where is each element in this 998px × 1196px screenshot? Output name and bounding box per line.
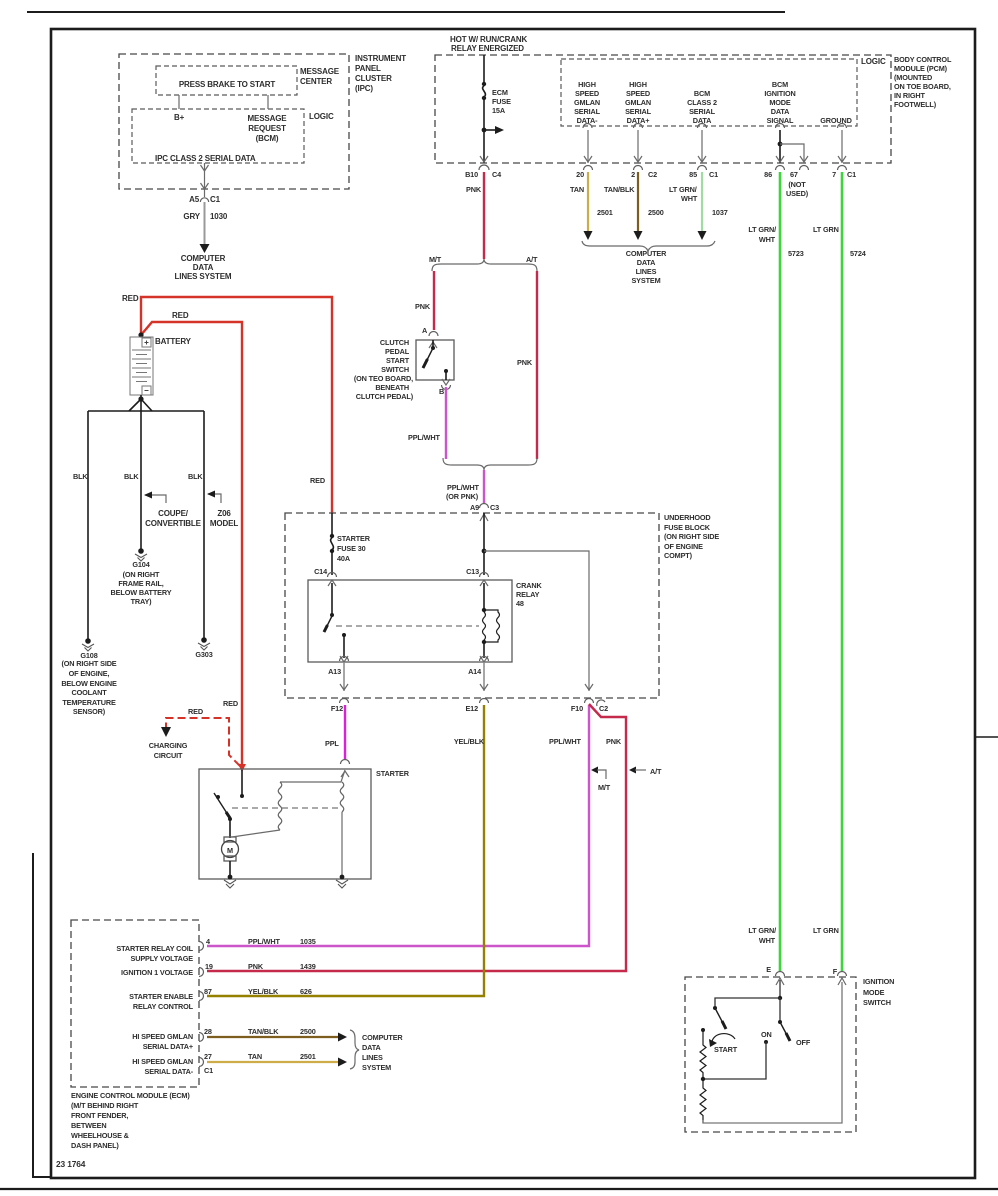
svg-text:23 1764: 23 1764 — [56, 1159, 86, 1169]
pin 7 ground stub — [838, 124, 847, 164]
wire TAN 2501 ECM — [207, 1061, 338, 1063]
svg-text:YEL/BLK: YEL/BLK — [454, 737, 485, 746]
svg-text:RED: RED — [172, 311, 189, 320]
svg-text:LT GRN: LT GRN — [813, 926, 839, 935]
svg-text:DATA: DATA — [637, 258, 656, 267]
battery — [130, 337, 153, 395]
svg-text:7: 7 — [832, 170, 836, 179]
svg-text:PNK: PNK — [517, 358, 533, 367]
node fuse tap — [482, 128, 487, 133]
ignition switch internals — [713, 980, 790, 1041]
connector A5 C1 — [200, 198, 208, 202]
svg-text:GMLAN: GMLAN — [574, 98, 600, 107]
svg-text:A5: A5 — [189, 195, 200, 204]
connector 67 not used — [800, 166, 809, 171]
svg-text:SERIAL: SERIAL — [689, 107, 716, 116]
wire TAN 2501 — [587, 172, 589, 231]
svg-text:A/T: A/T — [526, 255, 538, 264]
wire BLK to G303 — [203, 411, 205, 638]
svg-text:OF ENGINE: OF ENGINE — [664, 542, 703, 551]
ECM fuse 15A — [483, 55, 485, 83]
svg-text:19: 19 — [205, 962, 213, 971]
svg-text:MODE: MODE — [863, 988, 885, 997]
svg-text:SERIAL: SERIAL — [574, 107, 601, 116]
connector A9 C3 — [480, 504, 489, 508]
svg-text:SWITCH: SWITCH — [381, 365, 409, 374]
splice bracket to A9 — [443, 458, 537, 470]
svg-text:REQUEST: REQUEST — [248, 124, 286, 133]
svg-text:START: START — [714, 1045, 738, 1054]
ground G303 — [198, 637, 210, 650]
wire stub B+ — [178, 95, 180, 109]
svg-text:IN RIGHT: IN RIGHT — [894, 91, 926, 100]
svg-text:DATA: DATA — [771, 107, 790, 116]
svg-text:LT GRN/: LT GRN/ — [748, 926, 776, 935]
connector starter solenoid — [341, 760, 350, 764]
svg-text:RED: RED — [310, 476, 325, 485]
wire RED dashed charging circuit — [166, 718, 240, 766]
svg-text:M/T: M/T — [429, 255, 442, 264]
starter box — [199, 769, 371, 879]
svg-text:BELOW ENGINE: BELOW ENGINE — [61, 679, 117, 688]
svg-text:PNK: PNK — [415, 302, 431, 311]
connector F10 C2 — [585, 699, 594, 704]
ECM pin 19 — [199, 968, 204, 977]
svg-text:SYSTEM: SYSTEM — [362, 1063, 391, 1072]
svg-text:15A: 15A — [492, 106, 506, 115]
svg-text:PANEL: PANEL — [355, 64, 381, 73]
svg-text:(IPC): (IPC) — [355, 84, 373, 93]
wire A14 to E12 — [483, 663, 485, 691]
connector 85 C1 — [698, 166, 707, 171]
svg-text:FUSE BLOCK: FUSE BLOCK — [664, 523, 711, 532]
wire TAN/BLK 2500 — [637, 172, 639, 231]
svg-text:MESSAGE: MESSAGE — [248, 114, 288, 123]
lower green labels — [748, 926, 776, 945]
svg-text:COUPE/: COUPE/ — [158, 509, 189, 518]
svg-text:(ON RIGHT: (ON RIGHT — [123, 570, 160, 579]
svg-text:OFF: OFF — [796, 1038, 811, 1047]
svg-text:STARTER: STARTER — [337, 534, 371, 543]
starter switch — [214, 770, 244, 838]
relay coil — [480, 580, 500, 662]
wire battery negative — [140, 395, 142, 399]
brace computer data lines — [582, 241, 715, 251]
connector A clutch switch — [429, 332, 438, 337]
svg-text:F10: F10 — [571, 704, 583, 713]
svg-text:M: M — [227, 846, 233, 855]
svg-text:C2: C2 — [599, 704, 608, 713]
svg-text:5723: 5723 — [788, 249, 804, 258]
svg-text:E: E — [766, 965, 771, 974]
svg-text:SYSTEM: SYSTEM — [631, 276, 660, 285]
BCM module dashed box — [435, 55, 891, 163]
svg-text:SERIAL DATA-: SERIAL DATA- — [145, 1067, 194, 1076]
wire LT GRN/WHT 1037 — [701, 172, 703, 231]
svg-text:GRY: GRY — [183, 212, 200, 221]
svg-text:PPL/WHT: PPL/WHT — [408, 433, 440, 442]
svg-text:COMPUTER: COMPUTER — [626, 249, 667, 258]
arrow red into starter — [238, 764, 246, 772]
starter motor M — [222, 837, 239, 877]
page bottom rule — [0, 1188, 998, 1190]
svg-text:PNK: PNK — [248, 962, 264, 971]
svg-text:F12: F12 — [331, 704, 343, 713]
svg-text:RELAY ENERGIZED: RELAY ENERGIZED — [451, 44, 524, 53]
svg-text:PEDAL: PEDAL — [385, 347, 410, 356]
svg-text:CLUTCH: CLUTCH — [380, 338, 409, 347]
svg-text:SUPPLY VOLTAGE: SUPPLY VOLTAGE — [130, 954, 193, 963]
svg-text:HIGH: HIGH — [629, 80, 647, 89]
svg-text:GMLAN: GMLAN — [625, 98, 651, 107]
wire into fuse block — [483, 513, 485, 575]
svg-text:COOLANT: COOLANT — [71, 688, 107, 697]
svg-text:C1: C1 — [709, 170, 718, 179]
svg-text:A: A — [422, 326, 428, 335]
svg-text:LT GRN: LT GRN — [813, 225, 839, 234]
svg-text:WHEELHOUSE &: WHEELHOUSE & — [71, 1131, 130, 1140]
clutch pedal start switch — [416, 340, 454, 380]
svg-text:CHARGING: CHARGING — [149, 741, 188, 750]
svg-text:B+: B+ — [174, 113, 185, 122]
svg-text:SERIAL DATA+: SERIAL DATA+ — [143, 1042, 193, 1051]
svg-text:(NOT: (NOT — [788, 180, 806, 189]
pin 67 branch not used — [780, 144, 808, 163]
svg-text:MODEL: MODEL — [210, 519, 238, 528]
svg-text:SPEED: SPEED — [626, 89, 650, 98]
svg-text:RELAY: RELAY — [516, 590, 540, 599]
Z06 model pointer — [208, 494, 221, 503]
svg-text:20: 20 — [576, 170, 584, 179]
starter ground right — [340, 875, 345, 880]
svg-text:WHT: WHT — [759, 235, 776, 244]
svg-text:PPL/WHT: PPL/WHT — [549, 737, 581, 746]
svg-text:TAN/BLK: TAN/BLK — [248, 1027, 279, 1036]
svg-text:SWITCH: SWITCH — [863, 998, 891, 1007]
node battery positive — [138, 332, 143, 337]
svg-text:WHT: WHT — [759, 936, 776, 945]
svg-text:COMPT): COMPT) — [664, 551, 693, 560]
BCM pin label class 2 serial data — [687, 89, 717, 125]
svg-text:STARTER RELAY COIL: STARTER RELAY COIL — [116, 944, 193, 953]
ground G108 — [82, 638, 94, 651]
svg-text:OF ENGINE,: OF ENGINE, — [69, 669, 110, 678]
svg-text:BETWEEN: BETWEEN — [71, 1121, 106, 1130]
svg-text:GROUND: GROUND — [820, 116, 852, 125]
svg-text:B10: B10 — [465, 170, 478, 179]
svg-text:FRONT FENDER,: FRONT FENDER, — [71, 1111, 128, 1120]
arrow to charging circuit — [161, 727, 171, 737]
wire to F10 — [484, 551, 589, 691]
instrument panel cluster IPC box — [119, 54, 349, 189]
connector 86 — [776, 166, 785, 171]
svg-text:CIRCUIT: CIRCUIT — [154, 751, 183, 760]
connector F12 — [340, 699, 349, 704]
svg-text:BELOW BATTERY: BELOW BATTERY — [111, 588, 172, 597]
svg-text:(ON RIGHT SIDE: (ON RIGHT SIDE — [61, 659, 116, 668]
svg-text:67: 67 — [790, 170, 798, 179]
svg-text:CLASS 2: CLASS 2 — [687, 98, 717, 107]
wire RED battery to starter — [141, 322, 242, 764]
svg-text:STARTER ENABLE: STARTER ENABLE — [129, 992, 193, 1001]
pin 2 stub — [634, 124, 643, 164]
svg-text:INSTRUMENT: INSTRUMENT — [355, 54, 406, 63]
svg-text:TEMPERATURE: TEMPERATURE — [62, 698, 116, 707]
connector E — [776, 972, 785, 977]
pin 85 stub — [698, 124, 707, 164]
wire PPL/WHT clutch to splice — [445, 387, 447, 459]
connector A13 — [340, 657, 349, 662]
svg-text:87: 87 — [204, 987, 212, 996]
svg-text:(M/T BEHIND RIGHT: (M/T BEHIND RIGHT — [71, 1101, 139, 1110]
coupe/convertible pointer — [145, 495, 166, 503]
splice bracket M/T A/T — [432, 259, 537, 271]
svg-text:2500: 2500 — [300, 1027, 316, 1036]
node battery negative split — [138, 396, 143, 401]
entry arrow A9 — [480, 514, 488, 521]
svg-text:LT GRN/: LT GRN/ — [669, 185, 697, 194]
svg-text:CRANK: CRANK — [516, 581, 542, 590]
svg-text:CENTER: CENTER — [300, 77, 332, 86]
svg-text:85: 85 — [689, 170, 697, 179]
ECM pin 87 — [199, 992, 204, 1001]
svg-text:STARTER: STARTER — [376, 769, 410, 778]
M/T pointer — [591, 767, 598, 774]
svg-text:LT GRN/: LT GRN/ — [748, 225, 776, 234]
svg-text:FOOTWELL): FOOTWELL) — [894, 100, 937, 109]
left margin rule — [33, 853, 51, 1177]
svg-text:(ON RIGHT SIDE: (ON RIGHT SIDE — [664, 532, 719, 541]
BCM pin label ignition mode data signal — [764, 80, 795, 125]
svg-text:1035: 1035 — [300, 937, 316, 946]
svg-text:2: 2 — [631, 170, 635, 179]
crank relay box — [308, 580, 512, 662]
svg-text:2501: 2501 — [300, 1052, 316, 1061]
brace computer data lines ECM — [350, 1030, 359, 1069]
wire LT GRN 5724 — [841, 172, 844, 971]
svg-text:FUSE: FUSE — [492, 97, 511, 106]
svg-text:UNDERHOOD: UNDERHOOD — [664, 513, 711, 522]
svg-text:BLK: BLK — [73, 472, 88, 481]
svg-text:86: 86 — [764, 170, 772, 179]
resistor 1 — [700, 1028, 706, 1081]
svg-text:PNK: PNK — [466, 185, 482, 194]
svg-text:BATTERY: BATTERY — [155, 337, 192, 346]
svg-text:PPL: PPL — [325, 739, 339, 748]
svg-text:BCM: BCM — [772, 80, 788, 89]
svg-text:USED): USED) — [786, 189, 809, 198]
svg-text:ON: ON — [761, 1030, 772, 1039]
svg-text:C1: C1 — [210, 195, 221, 204]
svg-text:RED: RED — [223, 699, 238, 708]
svg-text:RELAY CONTROL: RELAY CONTROL — [133, 1002, 194, 1011]
page top rule — [27, 11, 785, 13]
svg-text:ECM: ECM — [492, 88, 508, 97]
svg-text:HI SPEED GMLAN: HI SPEED GMLAN — [132, 1057, 193, 1066]
svg-text:28: 28 — [204, 1027, 212, 1036]
starter mechanical link — [232, 807, 340, 809]
resistor 2 — [700, 1079, 706, 1123]
svg-text:BLK: BLK — [124, 472, 139, 481]
connector C13 — [480, 573, 489, 578]
right margin tick — [975, 736, 998, 738]
pin 86 wire and junction — [776, 124, 785, 164]
wire to F — [703, 982, 842, 1123]
svg-text:IGNITION 1 VOLTAGE: IGNITION 1 VOLTAGE — [121, 968, 193, 977]
svg-text:48: 48 — [516, 599, 524, 608]
svg-text:CONVERTIBLE: CONVERTIBLE — [145, 519, 202, 528]
wire BLK to G104 — [140, 399, 142, 549]
svg-text:C2: C2 — [648, 170, 657, 179]
clutch switch contacts — [423, 340, 448, 380]
arrow to computer data lines — [200, 244, 210, 253]
svg-text:FUSE 30: FUSE 30 — [337, 544, 366, 553]
connector E12 — [480, 699, 489, 704]
wire LT GRN/WHT 5723 — [779, 172, 782, 971]
wire IPC serial data out — [204, 163, 206, 197]
svg-text:PNK: PNK — [606, 737, 622, 746]
svg-text:DATA: DATA — [362, 1043, 381, 1052]
svg-text:5724: 5724 — [850, 249, 867, 258]
ECM box — [71, 920, 199, 1087]
svg-text:PRESS BRAKE TO START: PRESS BRAKE TO START — [179, 80, 276, 89]
connector C14 — [328, 573, 337, 578]
svg-text:FRAME RAIL,: FRAME RAIL, — [118, 579, 163, 588]
svg-text:MODE: MODE — [769, 98, 791, 107]
svg-text:E12: E12 — [465, 704, 478, 713]
svg-text:A14: A14 — [468, 667, 482, 676]
starter solenoid coils — [232, 770, 349, 877]
starter ground left — [228, 875, 233, 880]
svg-text:ENGINE CONTROL MODULE (ECM): ENGINE CONTROL MODULE (ECM) — [71, 1091, 190, 1100]
svg-text:1439: 1439 — [300, 962, 316, 971]
svg-text:C13: C13 — [466, 567, 479, 576]
svg-text:1037: 1037 — [712, 208, 728, 217]
connector 20 — [584, 166, 593, 171]
node crank relay feed — [482, 549, 487, 554]
svg-text:LOGIC: LOGIC — [309, 112, 334, 121]
feed label HOT W/RUN/CRANK — [450, 35, 528, 53]
starter fuse 40A — [330, 513, 334, 575]
svg-text:HI SPEED GMLAN: HI SPEED GMLAN — [132, 1032, 193, 1041]
svg-text:IGNITION: IGNITION — [764, 89, 795, 98]
svg-text:WHT: WHT — [681, 194, 698, 203]
svg-text:(BCM): (BCM) — [256, 134, 279, 143]
svg-text:DASH PANEL): DASH PANEL) — [71, 1141, 119, 1150]
svg-text:G104: G104 — [132, 560, 150, 569]
ignition mode switch box — [685, 977, 856, 1132]
svg-text:A/T: A/T — [650, 767, 662, 776]
ECM pin 4 — [199, 942, 204, 951]
svg-text:A9: A9 — [470, 503, 479, 512]
svg-text:BLK: BLK — [188, 472, 203, 481]
ECM pin 28 — [199, 1033, 204, 1042]
connector 2 C2 — [634, 166, 643, 171]
wire PPL/WHT or PNK — [483, 470, 485, 503]
ON contact chain — [703, 1040, 768, 1079]
svg-text:1030: 1030 — [210, 212, 228, 221]
message center box — [156, 66, 297, 95]
svg-text:(OR PNK): (OR PNK) — [446, 492, 479, 501]
svg-text:B: B — [439, 387, 444, 396]
relay switch — [324, 580, 348, 662]
svg-text:C14: C14 — [314, 567, 328, 576]
wire TAN/BLK 2500 ECM — [207, 1036, 338, 1038]
svg-text:40A: 40A — [337, 554, 351, 563]
svg-text:BODY CONTROL: BODY CONTROL — [894, 55, 952, 64]
svg-text:RED: RED — [188, 707, 203, 716]
svg-text:TAN/BLK: TAN/BLK — [604, 185, 635, 194]
svg-text:G303: G303 — [195, 650, 212, 659]
svg-text:PPL/WHT: PPL/WHT — [248, 937, 280, 946]
ECM pin 27 — [199, 1058, 204, 1067]
svg-text:LINES SYSTEM: LINES SYSTEM — [175, 272, 232, 281]
svg-text:RED: RED — [122, 294, 139, 303]
wire BLK to G108 — [87, 411, 89, 641]
wire YEL/BLK E12 to ECM — [207, 705, 484, 996]
svg-text:(ON TEO BOARD,: (ON TEO BOARD, — [354, 374, 413, 383]
svg-text:2501: 2501 — [597, 208, 613, 217]
svg-text:SPEED: SPEED — [575, 89, 599, 98]
svg-text:F: F — [833, 967, 838, 976]
logic box IPC — [132, 109, 304, 163]
wire PPL/WHT F10 to ECM — [207, 705, 589, 946]
svg-text:27: 27 — [204, 1052, 212, 1061]
pin 20 stub — [583, 124, 592, 164]
svg-text:ON TOE BOARD,: ON TOE BOARD, — [894, 82, 951, 91]
svg-text:IPC CLASS 2 SERIAL DATA: IPC CLASS 2 SERIAL DATA — [155, 154, 256, 163]
connector B clutch switch — [442, 379, 450, 385]
svg-text:MODULE (PCM): MODULE (PCM) — [894, 64, 948, 73]
svg-text:SERIAL: SERIAL — [625, 107, 652, 116]
svg-text:PPL/WHT: PPL/WHT — [447, 483, 479, 492]
svg-text:(MOUNTED: (MOUNTED — [894, 73, 932, 82]
underhood fuse block box — [285, 513, 659, 698]
A/T pointer — [629, 767, 636, 774]
connector A14 — [480, 657, 489, 662]
svg-text:TAN: TAN — [570, 185, 584, 194]
svg-text:COMPUTER: COMPUTER — [181, 254, 226, 263]
wire PPL F12 to starter — [344, 705, 346, 760]
svg-text:IGNITION: IGNITION — [863, 977, 894, 986]
svg-text:HIGH: HIGH — [578, 80, 596, 89]
svg-text:LOGIC: LOGIC — [861, 57, 886, 66]
svg-text:CLUSTER: CLUSTER — [355, 74, 392, 83]
svg-text:YEL/BLK: YEL/BLK — [248, 987, 279, 996]
svg-text:BCM: BCM — [694, 89, 710, 98]
relay mechanical link — [336, 625, 479, 627]
wire PNK A/T branch — [536, 271, 538, 459]
svg-text:2500: 2500 — [648, 208, 664, 217]
svg-text:START: START — [386, 356, 410, 365]
svg-text:MESSAGE: MESSAGE — [300, 67, 340, 76]
svg-text:C1: C1 — [847, 170, 856, 179]
svg-text:CLUTCH PEDAL): CLUTCH PEDAL) — [356, 392, 414, 401]
wire PNK C2 to ECM — [207, 704, 626, 971]
svg-text:C3: C3 — [490, 503, 499, 512]
svg-text:BENEATH: BENEATH — [375, 383, 409, 392]
connector F — [838, 972, 847, 977]
svg-text:A13: A13 — [328, 667, 341, 676]
svg-text:COMPUTER: COMPUTER — [362, 1033, 403, 1042]
wire stub message request — [267, 95, 269, 109]
wire RED battery to starter fuse — [141, 297, 332, 513]
BCM pin label HS GMLAN serial data minus — [574, 80, 601, 125]
svg-text:C1: C1 — [204, 1066, 213, 1075]
svg-text:Z06: Z06 — [217, 509, 231, 518]
svg-text:C4: C4 — [492, 170, 502, 179]
wire A13 to F12 — [343, 663, 345, 691]
